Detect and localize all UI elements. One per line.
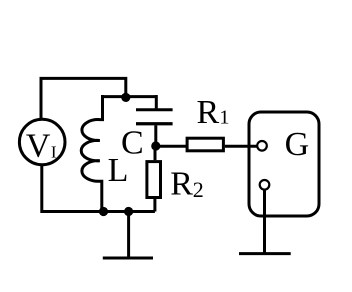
- terminal bottom: [260, 180, 270, 190]
- ground (earth) under G: [239, 252, 291, 255]
- inductor L: [81, 95, 102, 212]
- resistor R2: [147, 162, 161, 198]
- wire junction to R1: [156, 145, 187, 148]
- label R2: [170, 165, 204, 202]
- node capacitor-bottom junction: [151, 141, 160, 150]
- wire R2 bottom to bottom rail: [153, 199, 156, 212]
- wire bottom rail from V1: [42, 165, 155, 212]
- label V1: [26, 128, 57, 165]
- node top junction: [121, 93, 130, 102]
- svg-text:R: R: [197, 94, 220, 131]
- wire G bottom terminal to ground: [263, 190, 266, 254]
- svg-text:G: G: [285, 126, 310, 163]
- wire R1 to G terminal: [225, 145, 258, 148]
- wire junction to R2 top: [154, 146, 157, 160]
- wire to middle ground: [127, 212, 130, 259]
- svg-text:C: C: [121, 124, 144, 161]
- terminal top: [257, 141, 267, 151]
- wire parallel-section top: [103, 95, 157, 98]
- svg-text:I: I: [51, 143, 57, 162]
- ground (earth) middle: [103, 257, 153, 260]
- label R1: [197, 94, 230, 131]
- galvanometer G box: [249, 112, 319, 216]
- svg-text:R: R: [170, 165, 193, 202]
- node bottom junction left: [99, 207, 108, 216]
- svg-text:1: 1: [219, 107, 229, 129]
- svg-text:2: 2: [193, 177, 204, 202]
- voltmeter V1: [19, 119, 65, 165]
- capacitor C: [136, 95, 173, 146]
- resistor R1: [187, 138, 223, 151]
- node bottom junction right: [124, 207, 133, 216]
- svg-text:V: V: [26, 128, 51, 165]
- wire top loop from V1 top to junction: [41, 78, 126, 119]
